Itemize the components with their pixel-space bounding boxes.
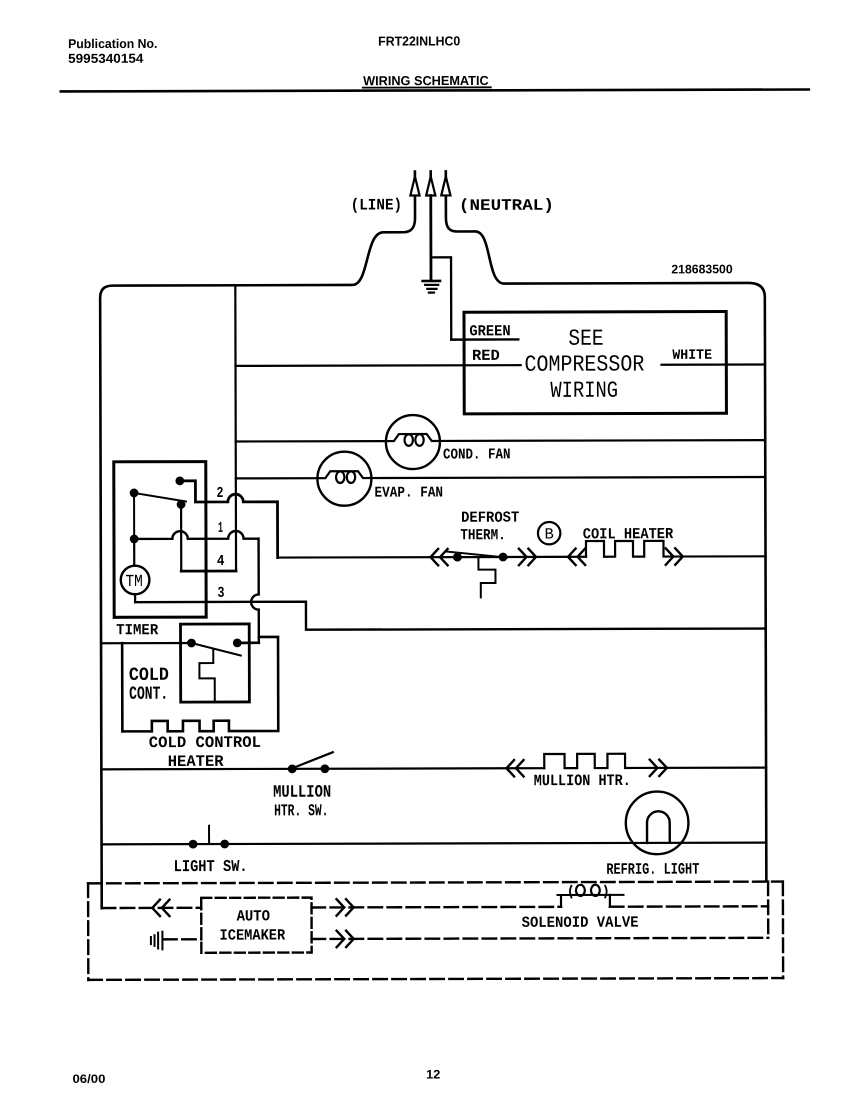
svg-text:MULLION HTR.: MULLION HTR. (534, 772, 631, 790)
svg-text:SEE: SEE (568, 326, 603, 352)
svg-text:THERM.: THERM. (460, 526, 505, 544)
svg-text:COND. FAN: COND. FAN (443, 446, 511, 463)
svg-text:CONT.: CONT. (129, 684, 168, 705)
svg-text:5995340154: 5995340154 (68, 51, 144, 66)
svg-text:TM: TM (125, 573, 142, 592)
svg-text:(LINE): (LINE) (351, 196, 403, 214)
svg-text:B: B (544, 525, 553, 543)
svg-text:RED: RED (472, 347, 500, 365)
svg-text:ICEMAKER: ICEMAKER (219, 926, 285, 944)
svg-text:12: 12 (426, 1067, 440, 1081)
svg-text:HTR. SW.: HTR. SW. (274, 801, 328, 820)
svg-text:Publication No.: Publication No. (68, 36, 157, 51)
svg-text:4: 4 (217, 552, 225, 570)
svg-text:DEFROST: DEFROST (461, 509, 519, 527)
svg-text:2: 2 (216, 484, 223, 502)
svg-text:AUTO: AUTO (237, 907, 271, 925)
svg-text:1: 1 (218, 519, 223, 537)
svg-text:(NEUTRAL): (NEUTRAL) (459, 197, 554, 215)
svg-text:TIMER: TIMER (116, 621, 159, 639)
svg-text:WHITE: WHITE (672, 348, 712, 364)
svg-text:GREEN: GREEN (469, 322, 510, 340)
svg-text:218683500: 218683500 (671, 262, 732, 276)
svg-text:COLD CONTROL: COLD CONTROL (149, 734, 261, 752)
svg-text:3: 3 (217, 584, 224, 602)
svg-text:COIL HEATER: COIL HEATER (583, 525, 674, 543)
svg-text:SOLENOID VALVE: SOLENOID VALVE (522, 914, 639, 932)
svg-text:EVAP. FAN: EVAP. FAN (375, 484, 444, 501)
svg-text:FRT22INLHC0: FRT22INLHC0 (378, 33, 460, 48)
svg-text:06/00: 06/00 (72, 1072, 105, 1086)
svg-text:LIGHT SW.: LIGHT SW. (174, 857, 248, 876)
svg-text:COMPRESSOR: COMPRESSOR (524, 351, 644, 377)
svg-text:WIRING SCHEMATIC: WIRING SCHEMATIC (363, 73, 489, 88)
svg-text:WIRING: WIRING (550, 378, 618, 404)
svg-text:REFRIG. LIGHT: REFRIG. LIGHT (606, 861, 699, 879)
svg-text:MULLION: MULLION (273, 784, 331, 803)
